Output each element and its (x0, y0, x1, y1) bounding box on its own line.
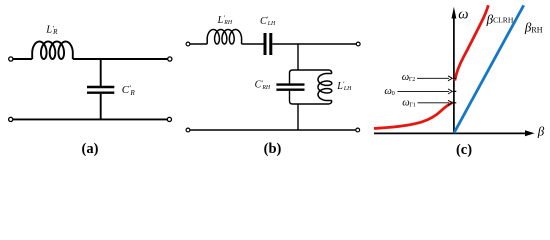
terminal: output port bottom (b) (356, 128, 360, 132)
wire: top-right (a) (73, 58, 168, 60)
svg-text:L′RH: L′RH (217, 15, 233, 26)
svg-text:ω: ω (458, 6, 468, 22)
arrow: omega_G1 (418, 100, 453, 105)
wire: between L'RH and C'LH (b) (242, 43, 264, 45)
curve: CRLH left-handed branch (red, beta<0) (374, 102, 453, 128)
terminal: input port bottom (a) (9, 117, 13, 121)
svg-text:C′RH: C′RH (255, 79, 271, 90)
terminal: output port top (b) (356, 42, 360, 46)
tick: omega_0 (453, 90, 456, 92)
wire: bottom (b) (190, 129, 356, 131)
wire: top-left lead (b) (190, 43, 207, 45)
wire: shunt stem lower (b) (297, 104, 299, 130)
svg-text:βCLRH: βCLRH (486, 11, 514, 26)
svg-text:C′LH: C′LH (260, 16, 276, 27)
svg-text:ωΓ1: ωΓ1 (402, 97, 416, 108)
wire: shunt stem lower (a) (100, 94, 102, 120)
svg-text:(a): (a) (82, 141, 99, 157)
capacitor C'LH (265, 33, 271, 55)
terminal: input port bottom (b) (186, 128, 190, 132)
terminal: output port bottom (a) (167, 117, 171, 121)
wire: bottom (a) (13, 118, 167, 120)
capacitor C'R (87, 87, 114, 93)
axis: beta (horizontal) (374, 130, 535, 136)
svg-text:ωΓ2: ωΓ2 (402, 72, 416, 83)
inductor L'R (32, 42, 73, 60)
wire: shunt stem upper (a) (100, 59, 102, 86)
svg-text:(c): (c) (456, 142, 472, 158)
terminal: input port top (a) (9, 57, 13, 61)
svg-text:ω0: ω0 (384, 86, 394, 97)
svg-text:C′R: C′R (122, 84, 136, 97)
inductor L'LH (vertical) (318, 74, 332, 101)
arrow: omega_G2 (417, 76, 452, 81)
wire: tank bottom bar (b) (290, 90, 332, 104)
svg-text:L′LH: L′LH (336, 81, 352, 92)
capacitor C'RH (276, 85, 304, 90)
axis: omega (vertical) (452, 7, 457, 134)
wire: shunt stem upper (b) (297, 44, 299, 70)
terminal: input port top (b) (186, 42, 190, 46)
curve: CRLH right-handed branch (red, beta>0) (455, 5, 489, 80)
curve: RH line (blue) (454, 5, 524, 133)
svg-text:βRH: βRH (524, 19, 543, 34)
tick: omega_G1 (453, 102, 456, 104)
svg-text:L′R: L′R (45, 24, 58, 36)
arrow: omega_0 (398, 89, 453, 94)
wire: top-right (b) (272, 43, 356, 45)
svg-text:β: β (537, 123, 545, 138)
tick: omega_G2 (453, 77, 456, 79)
wire: tank top bar (b) (290, 70, 332, 84)
inductor L'RH (207, 30, 241, 45)
terminal: output port top (a) (168, 57, 172, 61)
svg-text:(b): (b) (264, 141, 282, 157)
wire: top-left lead (a) (13, 58, 32, 60)
